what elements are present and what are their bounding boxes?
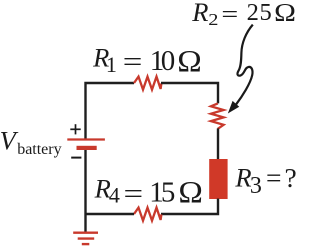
arrowhead [229,102,239,113]
svg-text:battery: battery [17,141,61,158]
resistor R1 [134,77,161,90]
svg-text:5: 5 [260,0,272,26]
wire right middle (between R2 and R3) [217,128,219,160]
resistor R4 [134,208,161,221]
label R3 = ? [234,162,296,199]
wire top-right: top wire right part + right upper vertical [161,83,218,103]
svg-text:=: = [123,45,143,78]
label R2 = 25 ohm [191,0,296,30]
label R4 = 15 ohm [94,174,203,210]
svg-text:=: = [266,162,282,193]
battery V: long plate (+) [67,138,105,140]
wire bottom-left: bottom wire left part [86,213,135,215]
svg-text:?: ? [285,162,297,193]
label R1 = 10 ohm [92,43,202,78]
wire left lower vertical (battery to ground stem) [84,150,86,232]
plus sign [70,124,80,134]
svg-text:=: = [221,0,238,27]
svg-text:V: V [0,126,19,156]
svg-text:2: 2 [247,0,259,26]
svg-text:1: 1 [106,52,117,77]
svg-text:=: = [124,177,144,210]
svg-text:4: 4 [109,183,120,208]
svg-text:2: 2 [208,11,218,30]
arrow (points to R2) [236,25,253,105]
label V battery [0,126,62,159]
resistor R2 [211,103,224,128]
svg-text:5: 5 [161,176,176,208]
wire top-left: left upper vertical + top wire left part [86,83,135,139]
wire bottom-right: right lower vertical + bottom wire right part [161,199,218,215]
ground [73,233,98,244]
svg-text:Ω: Ω [178,175,202,209]
battery V: short thick plate (-) [77,146,97,150]
minus sign [71,157,81,159]
svg-text:0: 0 [161,45,176,77]
svg-text:Ω: Ω [177,44,201,78]
svg-text:3: 3 [250,173,262,199]
resistor R3 [209,159,227,199]
svg-text:R: R [191,0,208,27]
svg-text:Ω: Ω [274,0,296,26]
